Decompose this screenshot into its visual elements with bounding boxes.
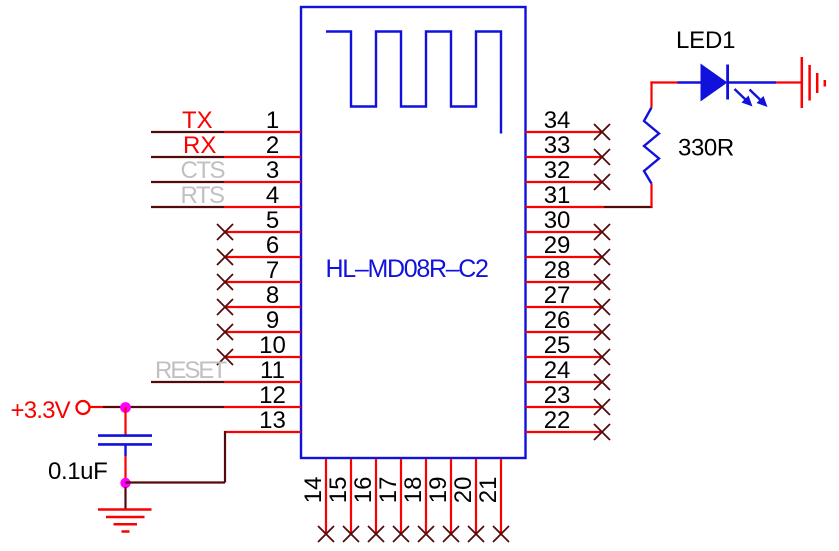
no-connect X pin 24 <box>594 374 610 390</box>
svg-text:33: 33 <box>544 132 571 159</box>
wire C1 bottom to node B (red) <box>124 456 126 479</box>
svg-text:21: 21 <box>475 476 502 503</box>
no-connect X pin 16 <box>368 526 384 542</box>
svg-text:10: 10 <box>259 332 286 359</box>
svg-text:9: 9 <box>266 307 279 334</box>
wire pin 16 stub (vertical) <box>375 459 377 534</box>
svg-text:24: 24 <box>544 357 571 384</box>
svg-text:29: 29 <box>544 232 571 259</box>
wire pin 2 net segment (dark) <box>151 156 224 158</box>
junction node B (C1 bottom / pin13 / gnd) <box>120 478 130 488</box>
wire pin 24 stub <box>526 381 603 383</box>
svg-text:3: 3 <box>266 157 279 184</box>
svg-text:32: 32 <box>544 157 571 184</box>
svg-text:RX: RX <box>183 132 216 159</box>
port terminal circle +3.3V <box>77 401 90 414</box>
wire pin 31 (dark) <box>604 206 653 208</box>
no-connect X pin 18 <box>418 526 434 542</box>
svg-text:8: 8 <box>266 282 279 309</box>
no-connect X pin 20 <box>468 526 484 542</box>
svg-text:7: 7 <box>266 257 279 284</box>
wire pin 4 segment (red) <box>224 206 301 208</box>
wire node B down to ground (dark) <box>124 487 126 509</box>
wire pin 19 stub (vertical) <box>450 459 452 534</box>
no-connect X pin 32 <box>594 174 610 190</box>
no-connect X pin 19 <box>443 526 459 542</box>
junction node A (pin12 / C1 top) <box>120 402 131 413</box>
LED1 cathode lead (blue) <box>728 81 776 84</box>
wire pin 20 stub (vertical) <box>475 459 477 534</box>
svg-text:RESET: RESET <box>155 357 227 384</box>
antenna meander inside U1 <box>326 32 501 134</box>
wire pin 30 stub <box>526 231 603 233</box>
svg-text:30: 30 <box>544 207 571 234</box>
no-connect X pin 22 <box>594 424 610 440</box>
svg-text:16: 16 <box>350 476 377 503</box>
svg-text:CTS: CTS <box>181 157 225 184</box>
wire pin 11 segment (red) <box>224 381 301 383</box>
wire pin 27 stub <box>526 306 603 308</box>
svg-text:RTS: RTS <box>181 182 225 209</box>
no-connect X pin 21 <box>493 526 509 542</box>
svg-text:HL–MD08R–C2: HL–MD08R–C2 <box>326 255 489 283</box>
svg-text:18: 18 <box>400 476 427 503</box>
no-connect X pin 17 <box>393 526 409 542</box>
capacitor C1 bottom lead (blue) <box>124 446 126 457</box>
no-connect X pin 23 <box>594 399 610 415</box>
wire pin 3 segment (red) <box>224 181 301 183</box>
svg-text:34: 34 <box>544 107 571 134</box>
no-connect X pin 25 <box>594 349 610 365</box>
svg-text:+3.3V: +3.3V <box>11 397 71 424</box>
wire pin 13 (red) <box>225 431 302 433</box>
svg-text:31: 31 <box>544 182 571 209</box>
svg-text:13: 13 <box>259 407 286 434</box>
wire pin 12 (dark) <box>103 406 224 408</box>
wire R1 top to LED1 (red) <box>650 81 677 83</box>
wire pin 29 stub <box>526 256 603 258</box>
LED1 cathode bar <box>726 65 729 100</box>
svg-text:0.1uF: 0.1uF <box>48 458 107 485</box>
svg-text:11: 11 <box>260 357 285 384</box>
svg-text:2: 2 <box>266 132 279 159</box>
no-connect X pin 6 <box>217 249 233 265</box>
svg-text:15: 15 <box>325 476 352 503</box>
wire pin 25 stub <box>526 356 603 358</box>
wire pin 17 stub (vertical) <box>400 459 402 534</box>
wire pin 34 stub <box>526 131 603 133</box>
no-connect X pin 9 <box>217 324 233 340</box>
no-connect X pin 26 <box>594 324 610 340</box>
resistor R1 zigzag <box>644 108 659 184</box>
wire pin 1 net segment (dark) <box>151 131 224 133</box>
svg-text:26: 26 <box>544 307 571 334</box>
LED1 triangle <box>701 65 727 101</box>
svg-text:19: 19 <box>425 476 452 503</box>
capacitor C1 top plate <box>98 434 152 437</box>
wire pin 12 stub from port (red) <box>90 406 103 408</box>
svg-text:6: 6 <box>266 232 279 259</box>
svg-text:27: 27 <box>544 282 571 309</box>
no-connect X pin 5 <box>217 224 233 240</box>
LED1 anode lead (blue) <box>678 81 702 84</box>
wire pin 21 stub (vertical) <box>500 459 502 534</box>
wire pin31 corner riser to R1 (red) <box>650 184 652 208</box>
svg-text:20: 20 <box>450 476 477 503</box>
svg-text:22: 22 <box>544 407 571 434</box>
ground symbol right (rotated) <box>802 57 825 108</box>
svg-text:17: 17 <box>375 476 402 503</box>
no-connect X pin 30 <box>594 224 610 240</box>
no-connect X pin 15 <box>343 526 359 542</box>
wire pin 14 stub (vertical) <box>325 459 327 534</box>
wire pin 11 net segment (dark) <box>151 381 224 383</box>
wire pin 15 stub (vertical) <box>350 459 352 534</box>
LED1 light arrow 2 <box>750 90 768 108</box>
LED1 light arrow 1 <box>735 89 753 107</box>
wire pin 2 segment (red) <box>224 156 301 158</box>
no-connect X pin 34 <box>594 124 610 140</box>
IC U1 HL-MD08R-C2 body <box>301 7 526 458</box>
no-connect X pin 8 <box>217 299 233 315</box>
svg-text:25: 25 <box>544 332 571 359</box>
wire pin 18 stub (vertical) <box>425 459 427 534</box>
wire pin 6 stub <box>225 256 301 258</box>
no-connect X pin 33 <box>594 149 610 165</box>
svg-text:TX: TX <box>182 107 213 134</box>
svg-text:28: 28 <box>544 257 571 284</box>
wire pin13 riser vertical (dark) <box>224 431 226 483</box>
wire pin 31 (red) <box>526 206 605 208</box>
wire pin 22 stub <box>526 431 603 433</box>
wire node A down to C1 (red) <box>124 408 126 435</box>
no-connect X pin 28 <box>594 274 610 290</box>
wire pin 33 stub <box>526 156 603 158</box>
wire pin 9 stub <box>225 331 301 333</box>
wire pin 32 stub <box>526 181 603 183</box>
svg-text:4: 4 <box>266 182 279 209</box>
svg-text:12: 12 <box>259 382 286 409</box>
capacitor C1 bottom plate <box>98 443 152 446</box>
wire pin 28 stub <box>526 281 603 283</box>
wire LED1 to ground (red) <box>776 81 802 83</box>
wire pin 10 stub <box>225 356 301 358</box>
svg-text:23: 23 <box>544 382 571 409</box>
wire pin 5 stub <box>225 231 301 233</box>
svg-text:330R: 330R <box>678 135 734 162</box>
no-connect X pin 14 <box>318 526 334 542</box>
wire node B to pin13 riser (dark) <box>126 481 226 483</box>
wire pin 23 stub <box>526 406 603 408</box>
wire R1 top lead (red) <box>650 81 652 107</box>
wire pin 4 net segment (dark) <box>151 206 224 208</box>
no-connect X pin 7 <box>217 274 233 290</box>
no-connect X pin 29 <box>594 249 610 265</box>
wire pin 12 (red) <box>224 406 301 408</box>
wire pin 26 stub <box>526 331 603 333</box>
wire pin 8 stub <box>225 306 301 308</box>
svg-text:LED1: LED1 <box>676 27 735 54</box>
svg-text:5: 5 <box>266 207 279 234</box>
svg-text:14: 14 <box>300 476 327 503</box>
no-connect X pin 27 <box>594 299 610 315</box>
ground symbol left (earth) <box>98 510 152 532</box>
wire pin 7 stub <box>225 281 301 283</box>
wire pin 1 segment (red) <box>224 131 301 133</box>
svg-text:1: 1 <box>266 107 279 134</box>
no-connect X pin 10 <box>217 349 233 365</box>
wire pin 3 net segment (dark) <box>151 181 224 183</box>
